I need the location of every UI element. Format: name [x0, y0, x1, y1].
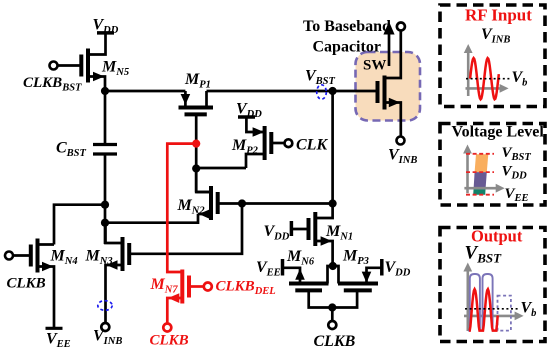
wire node I down — [331, 308, 334, 322]
dashed level line VEE — [466, 194, 494, 196]
terminal VINB (SW source) — [388, 137, 417, 167]
wire MN5 junction down to CBST — [104, 91, 107, 145]
terminal VINB bottom — [93, 323, 122, 347]
node I (gate junction) — [328, 303, 336, 311]
wire MP1 gate down to node — [195, 114, 198, 192]
panel Voltage Level box — [440, 124, 545, 206]
wire node D to MN1 drain junction — [242, 202, 333, 205]
VEE T-bar at MN6 — [256, 259, 283, 279]
wire node B left and down to MN4 drain — [54, 205, 105, 245]
SW block box — [356, 52, 421, 121]
axes RF Input — [464, 44, 509, 96]
node G (MN1 drain junction) — [329, 199, 337, 207]
node F (red boost node) — [192, 140, 200, 148]
wire VBST down to lower rail — [331, 91, 334, 204]
transistor MP2 — [231, 117, 271, 168]
terminal CLKB_DEL (MN7 gate, red) — [189, 279, 276, 298]
VDD supply bar above MP2 — [236, 101, 262, 121]
node C junction to MN2 source — [101, 219, 109, 227]
terminal CLKB (MN4 gate) — [5, 252, 46, 292]
dashed level line VDD — [466, 171, 494, 173]
svg-text:CLKB: CLKB — [7, 276, 46, 292]
dotted bias line Vb output — [465, 308, 520, 310]
wire CBST down — [104, 154, 107, 244]
transistor MP3 — [333, 248, 382, 291]
transistor MN4 — [31, 239, 78, 329]
svg-text:To Baseband: To Baseband — [303, 18, 391, 35]
wire node E down to MN2 drain — [196, 168, 211, 192]
transistor MN6 — [283, 248, 333, 290]
wire top rail left — [105, 90, 185, 93]
node A (MN5 source junction) — [101, 87, 109, 95]
svg-text:Voltage Level: Voltage Level — [452, 124, 545, 141]
VDD T-bar at MN1 gate — [264, 221, 309, 243]
node D (MN2 gate junction) — [238, 199, 246, 207]
node VBST — [305, 68, 337, 96]
node E (MP1 gate / MP2 drain junction) — [192, 164, 200, 172]
VDD T-bar at MP3 — [382, 259, 411, 279]
svg-text:CLKB: CLKB — [314, 333, 356, 350]
output sine (red, clipped) — [469, 289, 498, 330]
probe ellipse at VBST — [317, 85, 327, 99]
svg-text:Capacitor: Capacitor — [313, 39, 381, 56]
transistor MP1 — [179, 71, 214, 114]
transistor MN7 (red) — [150, 270, 190, 324]
wire node D down to MN3 gate — [129, 204, 242, 254]
transistor SW — [378, 30, 401, 137]
label To Baseband Capacitor — [303, 18, 391, 56]
svg-text:CLKB: CLKB — [150, 333, 189, 349]
probe ellipse at VINB wire — [98, 301, 112, 311]
voltage bar purple segment — [474, 172, 487, 188]
node H (MN6/MP3 common drain) — [329, 262, 337, 270]
VEE supply bar under MN4 — [46, 328, 71, 350]
svg-text:Output: Output — [471, 227, 523, 246]
terminal to baseband capacitor — [397, 23, 405, 31]
terminal CLKB_BST — [23, 62, 82, 94]
wire VDD to MN5 drain — [88, 33, 106, 55]
axes Voltage Level — [463, 145, 505, 194]
red wire node F to MN7 drain — [167, 144, 196, 272]
transistor MN1 — [309, 204, 354, 267]
node B junction to MN4 — [101, 201, 109, 209]
transistor MN3 — [85, 223, 130, 323]
transistor MN2 — [177, 186, 243, 220]
wire node C to MN2 source — [105, 214, 198, 223]
terminal CLKB bottom center — [314, 321, 356, 350]
svg-text:RF Input: RF Input — [465, 6, 532, 25]
voltage bar teal segment — [473, 188, 485, 195]
wire MN6/MP3 gates to CLKB — [309, 290, 357, 307]
voltage bar orange segment — [475, 154, 489, 172]
transistor MN5 — [81, 49, 129, 92]
boosted square waveform (purple) — [468, 274, 495, 331]
svg-text:CLK: CLK — [296, 137, 328, 154]
wire top rail right — [207, 90, 333, 93]
axes Output — [463, 263, 523, 332]
sine wave RF Input — [470, 58, 499, 99]
wire VBST to SW gate — [333, 90, 378, 93]
wire MP2 bottom to node E — [196, 167, 246, 170]
panel Output box — [440, 228, 545, 342]
terminal CLK (MP2 gate) — [271, 137, 328, 154]
svg-text:SW: SW — [363, 58, 386, 74]
panel RF Input box — [440, 5, 545, 107]
VDD supply bar top-left — [93, 17, 119, 37]
dotted bias line Vb — [466, 78, 510, 80]
terminal CLKB (MN7 source, red) — [150, 324, 189, 349]
dashed level line VBST — [466, 153, 494, 155]
capacitor CBST — [56, 140, 117, 160]
dashed next pulse (purple) — [498, 296, 511, 331]
arrow to baseband — [383, 22, 394, 67]
